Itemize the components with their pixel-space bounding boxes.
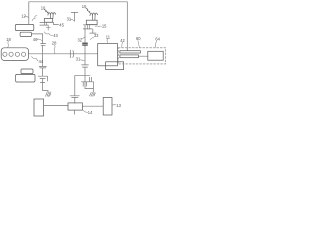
- svg-text:45: 45: [59, 22, 64, 27]
- svg-text:18: 18: [6, 37, 11, 42]
- svg-text:14: 14: [88, 110, 93, 115]
- svg-text:31: 31: [76, 57, 81, 62]
- svg-text:32: 32: [78, 37, 83, 42]
- svg-text:12: 12: [21, 14, 26, 19]
- svg-text:44: 44: [39, 59, 44, 64]
- svg-text:33: 33: [94, 33, 99, 38]
- svg-text:13: 13: [116, 103, 121, 108]
- svg-text:15: 15: [102, 23, 107, 28]
- svg-text:42: 42: [120, 38, 125, 43]
- svg-text:10: 10: [41, 6, 46, 11]
- svg-text:60: 60: [136, 36, 141, 41]
- svg-text:43: 43: [53, 33, 58, 38]
- svg-text:28: 28: [52, 41, 57, 46]
- svg-text:11: 11: [106, 35, 111, 40]
- svg-text:16: 16: [82, 4, 87, 9]
- svg-text:40: 40: [33, 37, 38, 42]
- svg-text:31: 31: [67, 16, 72, 21]
- svg-text:64: 64: [155, 37, 160, 42]
